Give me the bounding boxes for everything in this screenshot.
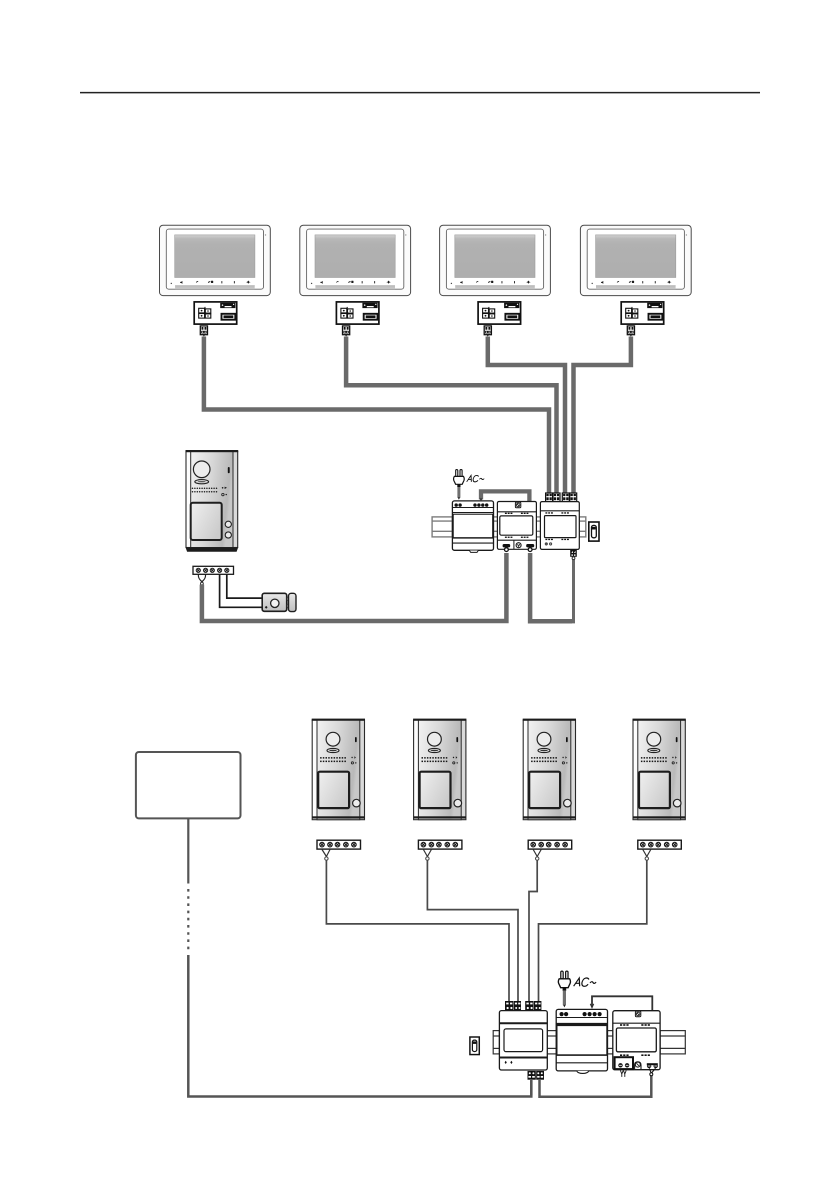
terminal strip TB1 under door station <box>193 566 234 574</box>
door station DS5 <box>633 719 686 820</box>
wire: guard unit riser (dashed) <box>187 889 189 953</box>
DIN rail right segment <box>579 517 586 537</box>
DIN rail gap PSU2/filter <box>608 1031 613 1054</box>
DIN rail bottom right segment <box>660 1031 685 1054</box>
power supply PSU2 <box>556 1009 607 1073</box>
wire DS2 to main distributor IN1 <box>326 860 509 1001</box>
wire: PSU1 output loop to filter module <box>481 491 529 506</box>
wire: guard unit riser to bottom bus <box>188 955 531 1097</box>
pigtail TB5 <box>643 850 651 857</box>
terminal strip TB2 <box>317 840 361 849</box>
filter module FM2 <box>613 1011 660 1077</box>
terminal strip TB4 <box>528 840 572 849</box>
DIN rail gap filter/distributor <box>536 517 540 537</box>
AC plug PL2 <box>558 971 570 991</box>
wire DS5 to main distributor IN4 <box>539 860 647 1001</box>
terminal strip TB5 <box>638 840 682 849</box>
main distributor BM2 <box>499 1001 547 1080</box>
pigtail TB3 <box>423 850 431 857</box>
pigtail TB2 <box>322 850 330 857</box>
pigtail TB4 <box>533 850 541 857</box>
monitor U3 <box>440 225 551 295</box>
door station DS4 <box>523 719 576 820</box>
wire bus: door station to branch module <box>202 553 507 621</box>
bracket J3 <box>478 302 520 324</box>
AC cord to PSU1 <box>457 487 460 498</box>
electric lock LK1 <box>262 593 296 611</box>
wire monitor2 to distributor IN2 <box>346 337 556 496</box>
wire monitor1 to distributor IN1 <box>204 337 549 496</box>
guard unit box (empty) <box>136 752 241 818</box>
filter module FM1 <box>497 502 536 552</box>
wire monitor4 to distributor IN4 <box>574 337 631 496</box>
wire DS3 to main distributor IN2 <box>427 860 518 1001</box>
header rule <box>80 92 760 94</box>
plug P1 <box>200 326 207 337</box>
pigtail from TB1 terminals 1-2 <box>198 575 205 583</box>
plug P3 <box>484 326 491 337</box>
AC plug PL1 <box>454 470 465 487</box>
monitor U1 <box>160 225 271 295</box>
wire: distributor OUT to bottom bus (left) <box>530 1080 533 1095</box>
bracket J2 <box>336 302 379 324</box>
terminal strip TB3 <box>418 840 462 849</box>
wire: filter module to branch module bottom <box>530 553 572 621</box>
DIN rail left segment <box>432 517 452 537</box>
monitor U2 <box>300 225 411 295</box>
wire: TB1 terminal 5 to lock <box>227 575 263 599</box>
wire: TB1 terminal 4 to lock <box>220 575 263 608</box>
label AC~ top <box>467 475 485 482</box>
monitor U4 <box>580 225 691 295</box>
DIN rail bottom left stub <box>493 1031 499 1054</box>
AC cord to PSU2 <box>563 991 566 1006</box>
bracket J1 <box>194 302 237 324</box>
label AC~ bottom <box>574 978 597 986</box>
bracket J4 <box>621 302 664 324</box>
wall switch SW2 <box>470 1037 479 1055</box>
wire: PSU2 loop to filter module FM2 <box>592 996 652 1020</box>
wire: guard unit riser (solid) <box>187 818 189 883</box>
DIN rail gap PSU1/filter <box>494 517 498 537</box>
wall switch SW1 <box>589 522 599 541</box>
door station DS2 <box>312 719 365 820</box>
plug P2 <box>343 326 350 337</box>
wire: distributor OUT to filter module (right) <box>540 1076 652 1097</box>
branch distributor BM1 <box>540 493 579 560</box>
DIN rail gap distributor/PSU2 <box>547 1031 556 1054</box>
door station DS3 <box>413 719 466 820</box>
wire DS4 to main distributor IN3 <box>529 860 537 1001</box>
plug P4 <box>627 326 634 337</box>
power supply PSU1 <box>452 501 493 553</box>
door station DS1 (2-button) <box>186 450 239 552</box>
wire monitor3 to distributor IN3 <box>488 337 565 496</box>
